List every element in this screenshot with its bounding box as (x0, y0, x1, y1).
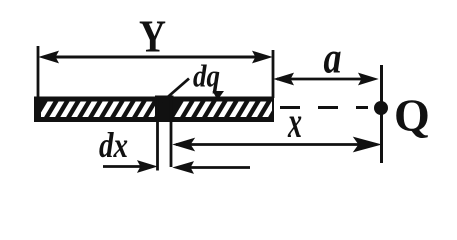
dimension line x (174, 138, 380, 152)
svg-text:Y: Y (139, 11, 166, 62)
dx arrow left (103, 161, 156, 172)
dx element side line left (156, 100, 159, 171)
svg-text:Q: Q (394, 90, 430, 141)
svg-text:dq: dq (193, 58, 220, 94)
svg-text:a: a (324, 34, 342, 83)
dx element side line right (170, 100, 173, 167)
vertical line at Q (380, 65, 383, 163)
point charge Q dot (374, 101, 388, 115)
axis dashed line (280, 106, 368, 109)
rod (hatched bar) (34, 97, 276, 123)
svg-text:x: x (287, 98, 302, 147)
dq element (155, 96, 174, 123)
dx arrow right (174, 162, 250, 173)
extension line left (37, 46, 40, 98)
extension line right (272, 50, 275, 98)
dimension line a (275, 74, 377, 85)
q tail blob of dq label (213, 91, 225, 100)
dimension line Y (40, 52, 271, 63)
leader line to dq (162, 79, 189, 103)
svg-text:dx: dx (99, 125, 128, 165)
